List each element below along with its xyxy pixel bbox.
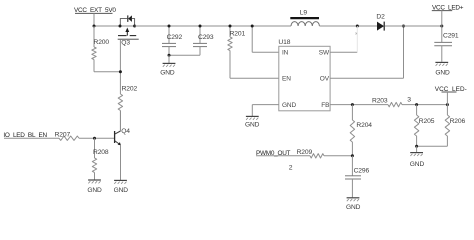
svg-text:OV: OV (320, 76, 330, 83)
svg-text:Q4: Q4 (121, 128, 130, 135)
svg-text:GND: GND (410, 161, 425, 168)
junction Q3 drain (133, 25, 136, 28)
svg-text:GND: GND (346, 204, 361, 211)
svg-text:U18: U18 (278, 39, 290, 46)
wire Q3 gate down to R202 (94, 39, 120, 94)
junction C292 top (168, 25, 171, 28)
pin number 2 (289, 164, 293, 171)
svg-text:3: 3 (407, 96, 411, 103)
wire Q3 drain to L9 (135, 25, 291, 27)
junction FB / R204 (351, 103, 354, 106)
ground C296 (346, 198, 361, 211)
svg-text:R204: R204 (356, 122, 372, 129)
resistor R209 (297, 149, 324, 158)
junction VCC_LED- node (446, 103, 449, 106)
wire L9 to D2 (319, 25, 377, 27)
svg-text:GND: GND (160, 70, 175, 77)
svg-text:R200: R200 (94, 39, 110, 46)
ground Q4 emitter (114, 180, 129, 194)
svg-text:R202: R202 (122, 85, 138, 92)
svg-text:GND: GND (87, 187, 102, 194)
svg-text:FB: FB (321, 102, 329, 109)
wire FB net (330, 104, 388, 106)
resistor R202 (118, 85, 137, 131)
inductor L9 (290, 9, 319, 26)
wire C292/C293 bottoms (169, 54, 200, 56)
svg-text:EN: EN (282, 76, 291, 83)
capacitor C292 (162, 26, 183, 55)
wire R207 to Q4 base (79, 137, 115, 139)
junction node 3 (415, 103, 418, 106)
wire VCC_EXT_5V0 to Q3 source (94, 25, 120, 27)
junction OV branch (402, 25, 405, 28)
transistor Q4 (NPN) (115, 128, 131, 146)
wire IN branch (252, 26, 279, 52)
resistor R203 (372, 97, 402, 106)
svg-text:R209: R209 (297, 149, 313, 156)
svg-text:GND: GND (282, 102, 297, 109)
junction IN branch (251, 25, 254, 28)
capacitor C291 (434, 26, 459, 62)
ground R208 (87, 180, 102, 194)
svg-text:R203: R203 (372, 97, 388, 104)
ground C291 (435, 62, 450, 76)
svg-text:C293: C293 (198, 34, 214, 41)
junction PWM node (351, 154, 354, 157)
resistor R200 (92, 26, 110, 72)
svg-text:L9: L9 (300, 9, 308, 16)
junction R208 tap (93, 137, 96, 140)
resistor R201 (228, 26, 246, 78)
svg-text:GND: GND (435, 69, 450, 76)
wire D2 to VCC_LED+ (385, 25, 442, 27)
svg-text:C296: C296 (354, 167, 370, 174)
wire R201 to EN pin (230, 77, 279, 79)
svg-text:C291: C291 (443, 33, 459, 40)
svg-text:2: 2 (289, 164, 293, 171)
svg-text:R207: R207 (55, 132, 71, 139)
svg-text:C292: C292 (167, 34, 183, 41)
svg-text:D2: D2 (376, 14, 385, 21)
svg-text:R201: R201 (230, 30, 246, 37)
power net VCC_EXT_5V0 (74, 7, 116, 26)
capacitor C293 (193, 26, 214, 55)
junction R205/R206 bottoms (415, 145, 418, 148)
junction C293 top (199, 25, 202, 28)
wire OV pin to output (330, 26, 403, 78)
junction R201 top (229, 25, 232, 28)
wire R206 bottom to R205 bottom (417, 145, 448, 147)
junction output node (440, 25, 443, 28)
junction Q3 source (119, 25, 122, 28)
ground C292/C293 (160, 55, 175, 76)
svg-text:GND: GND (114, 187, 129, 194)
resistor R204 (350, 105, 372, 156)
junction R200/gate (119, 70, 122, 73)
svg-text:GND: GND (245, 121, 260, 128)
junction SW node (356, 25, 359, 28)
net label PWM0_OUT (256, 150, 310, 157)
resistor R208 (92, 138, 109, 179)
svg-text:R206: R206 (450, 118, 466, 125)
IC U18 (278, 39, 330, 111)
resistor R205 (414, 105, 434, 147)
svg-text:SW: SW (319, 49, 330, 56)
pin number x at SW node (355, 31, 357, 36)
wire Q4 collector (120, 111, 122, 132)
ground U18 (245, 116, 260, 128)
resistor R207 (55, 132, 79, 141)
net label IO_LED_BL_EN (3, 132, 59, 139)
wire Q4 emitter (120, 145, 122, 180)
resistor R206 (445, 105, 465, 147)
junction at VCC stub / R200 (93, 25, 96, 28)
diode D2 (376, 14, 385, 31)
svg-text:Q3: Q3 (121, 40, 130, 47)
wire SW pin (330, 26, 357, 52)
svg-text:R205: R205 (419, 118, 435, 125)
power net VCC_LED- (435, 86, 467, 105)
wire R209 to R204/C296 (324, 155, 352, 157)
transistor Q3 (P-MOSFET with body diode) (118, 15, 139, 46)
power net VCC_LED+ (432, 4, 464, 26)
node 3 label (407, 96, 411, 103)
svg-text:R208: R208 (93, 149, 109, 156)
svg-text:IN: IN (282, 49, 289, 56)
ground R205/R206 (410, 146, 425, 168)
wire R203 to node 3 (402, 104, 447, 106)
wire U18 GND pin (252, 105, 278, 116)
junction cap gnd (168, 54, 171, 57)
capacitor C296 (345, 156, 370, 198)
